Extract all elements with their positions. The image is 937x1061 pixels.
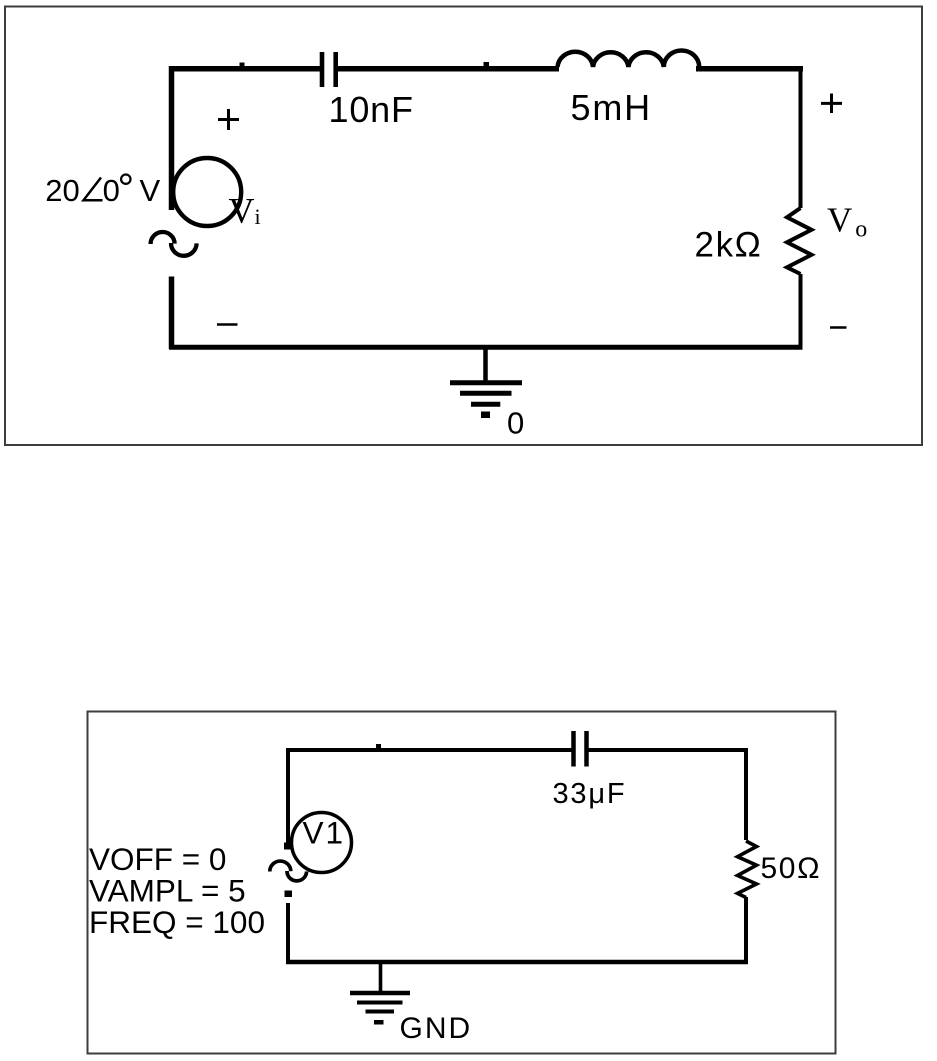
frame box circuit 2	[88, 712, 836, 1054]
minus sign right	[830, 326, 847, 329]
ground bar 3	[471, 402, 500, 407]
wire right vertical upper 2	[744, 748, 748, 840]
ground 2 bar 3	[366, 1010, 395, 1014]
source V1 circle	[292, 813, 352, 873]
ground stem	[483, 347, 488, 382]
svg-text:V: V	[140, 173, 161, 208]
ground bar 1	[450, 380, 522, 385]
svg-text:33μF: 33μF	[553, 778, 627, 810]
svg-text:V1: V1	[303, 815, 346, 851]
svg-text:0: 0	[507, 406, 524, 441]
wire right vertical lower 2	[744, 897, 748, 964]
ground dot	[481, 412, 490, 419]
capacitor C 10nF left plate	[320, 52, 325, 87]
source sine squiggle 2	[270, 861, 291, 871]
wire top horizontal right (capacitor to corner)	[589, 748, 749, 752]
wire top horizontal left (corner to capacitor)	[286, 748, 572, 752]
wire left vertical lower 2	[286, 903, 290, 964]
wire capacitor to inductor	[338, 66, 559, 72]
pin nub on top wire at ground column	[484, 62, 490, 67]
pin nub on top wire 2	[376, 744, 381, 748]
svg-text:5mH: 5mH	[571, 87, 652, 128]
svg-text:GND: GND	[400, 1012, 473, 1045]
source terminal dot bottom	[285, 891, 293, 898]
plus sign right	[821, 102, 842, 105]
angle symbol	[84, 178, 103, 201]
wire bottom horizontal 2	[286, 960, 748, 965]
wire top-left horizontal segment (source to capacitor)	[169, 66, 321, 72]
plus sign left	[218, 118, 239, 121]
wire right vertical upper (corner to resistor)	[799, 66, 803, 208]
ground 2 bar 1	[350, 991, 410, 996]
wire bottom horizontal	[169, 345, 803, 350]
frame box circuit 1	[5, 7, 922, 446]
svg-text:Vo: Vo	[827, 201, 867, 243]
svg-text:FREQ = 100: FREQ = 100	[89, 904, 265, 940]
capacitor C 10nF right plate	[333, 52, 338, 87]
wire left vertical upper 2	[286, 748, 290, 843]
wire left vertical lower (source to bottom)	[169, 277, 175, 350]
ground bar 2	[460, 391, 512, 396]
capacitor C2 33uF right plate	[584, 731, 589, 767]
svg-text:20: 20	[45, 173, 79, 208]
minus sign left	[217, 323, 238, 326]
superscript degree ring	[121, 175, 130, 184]
resistor R2 50 ohm zigzag	[738, 841, 757, 898]
svg-text:2kΩ: 2kΩ	[695, 226, 763, 265]
source V circle	[173, 158, 241, 226]
wire left vertical upper (corner to source)	[169, 66, 175, 210]
resistor R 2k zigzag	[787, 208, 812, 274]
ground 2 stem	[379, 962, 383, 993]
source sine squiggle	[151, 232, 175, 244]
svg-text:0: 0	[103, 173, 120, 208]
ground 2 bar 2	[357, 1001, 403, 1005]
capacitor C2 33uF left plate	[571, 731, 576, 767]
svg-text:Vi: Vi	[229, 191, 261, 231]
svg-text:10nF: 10nF	[329, 89, 414, 130]
wire right vertical lower (resistor to bottom)	[799, 274, 803, 347]
ground 2 dot	[374, 1020, 384, 1025]
source terminal dot top	[284, 843, 292, 850]
svg-text:50Ω: 50Ω	[761, 852, 822, 885]
pin nub on top wire	[240, 63, 245, 67]
inductor L 5mH	[558, 50, 700, 67]
wire inductor to top-right corner	[696, 66, 803, 72]
